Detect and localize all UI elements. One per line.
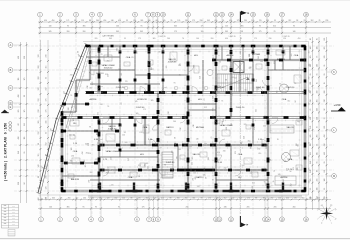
svg-text:175: 175 <box>274 61 276 64</box>
svg-text:95: 95 <box>317 144 319 146</box>
svg-text:312: 312 <box>46 143 48 146</box>
svg-text:312: 312 <box>234 78 237 80</box>
svg-text:410: 410 <box>18 95 20 98</box>
svg-text:175: 175 <box>24 78 26 81</box>
svg-text:——: —— <box>12 218 16 220</box>
svg-text:175: 175 <box>92 82 94 85</box>
svg-text:175: 175 <box>259 31 262 33</box>
svg-text:95: 95 <box>317 82 319 84</box>
svg-text:140: 140 <box>243 136 245 139</box>
outer wall: bottom facade <box>61 190 306 193</box>
svg-text:312: 312 <box>287 100 290 102</box>
svg-text:345: 345 <box>231 77 234 79</box>
svg-text:98: 98 <box>220 86 222 88</box>
svg-text:76: 76 <box>107 106 109 108</box>
svg-text:260: 260 <box>204 143 207 145</box>
svg-text:140: 140 <box>116 26 119 28</box>
interior window dim ticks <box>64 48 303 188</box>
svg-text:95: 95 <box>179 63 181 65</box>
svg-text:175: 175 <box>208 198 211 200</box>
svg-text:98: 98 <box>60 198 62 200</box>
svg-text:345: 345 <box>49 31 52 33</box>
svg-text:140: 140 <box>18 151 20 154</box>
svg-text:95: 95 <box>126 20 128 22</box>
svg-text:450: 450 <box>324 152 326 155</box>
svg-text:3.65/4.20: 3.65/4.20 <box>104 68 113 70</box>
svg-text:205: 205 <box>263 126 266 128</box>
svg-text:BALKON: BALKON <box>277 58 286 61</box>
svg-text:410: 410 <box>286 198 289 200</box>
svg-text:450: 450 <box>111 157 113 160</box>
svg-text:76: 76 <box>74 134 76 136</box>
svg-text:230: 230 <box>287 168 289 171</box>
svg-text:76: 76 <box>121 103 123 105</box>
svg-text:115: 115 <box>231 123 233 126</box>
svg-text:205: 205 <box>85 164 87 167</box>
svg-text:95: 95 <box>118 207 120 209</box>
svg-text:205: 205 <box>73 118 75 121</box>
svg-text:95: 95 <box>170 20 172 22</box>
svg-text:260: 260 <box>91 198 94 200</box>
svg-text:175: 175 <box>204 168 206 171</box>
svg-text:140: 140 <box>293 31 296 33</box>
svg-text:95: 95 <box>141 26 143 28</box>
svg-text:365: 365 <box>145 163 148 165</box>
svg-text:1.80/1.35: 1.80/1.35 <box>228 36 235 38</box>
svg-text:450: 450 <box>281 20 284 22</box>
svg-text:450: 450 <box>146 198 149 200</box>
svg-text:——: —— <box>12 206 16 208</box>
outer wall: right facade <box>304 46 307 192</box>
svg-text:230: 230 <box>309 129 311 132</box>
svg-text:365: 365 <box>192 157 194 160</box>
svg-text:88: 88 <box>156 20 158 22</box>
svg-text:175: 175 <box>153 198 156 200</box>
svg-text:120: 120 <box>122 135 125 137</box>
svg-text:345: 345 <box>310 135 312 138</box>
svg-text:345: 345 <box>324 170 326 173</box>
svg-text:120: 120 <box>310 170 312 173</box>
svg-text:230: 230 <box>38 110 40 113</box>
svg-text:205: 205 <box>247 207 250 209</box>
svg-text:410: 410 <box>317 64 319 67</box>
svg-text:120: 120 <box>208 157 210 160</box>
svg-text:——: —— <box>12 221 16 223</box>
svg-text:2.10/1.35: 2.10/1.35 <box>282 36 289 38</box>
left dimension chains <box>14 40 49 203</box>
svg-text:88: 88 <box>251 147 253 149</box>
svg-text:115: 115 <box>310 196 312 199</box>
svg-text:410: 410 <box>75 198 78 200</box>
svg-text:98: 98 <box>317 170 319 172</box>
svg-text:115: 115 <box>46 66 48 69</box>
svg-text:345: 345 <box>266 20 269 22</box>
svg-text:▪▪▪▪: ▪▪▪▪ <box>4 212 7 214</box>
svg-text:260: 260 <box>249 54 251 57</box>
svg-text:260: 260 <box>173 121 176 123</box>
svg-text:120: 120 <box>38 88 40 91</box>
svg-text:175: 175 <box>237 20 240 22</box>
svg-text:115: 115 <box>81 20 84 22</box>
svg-text:345: 345 <box>140 31 143 33</box>
svg-text:88: 88 <box>89 20 91 22</box>
svg-text:120: 120 <box>139 132 142 134</box>
svg-text:450: 450 <box>310 99 312 102</box>
svg-text:365: 365 <box>70 160 73 162</box>
svg-text:410: 410 <box>258 153 261 155</box>
svg-text:120: 120 <box>197 186 200 188</box>
svg-text:115: 115 <box>38 154 40 157</box>
svg-text:345: 345 <box>256 79 258 82</box>
svg-text:140: 140 <box>49 207 52 209</box>
svg-text:140: 140 <box>196 38 199 40</box>
svg-text:98: 98 <box>201 198 203 200</box>
svg-text:260: 260 <box>185 198 188 200</box>
svg-text:98: 98 <box>169 198 171 200</box>
svg-text:115: 115 <box>310 143 312 146</box>
svg-text:260: 260 <box>324 91 326 94</box>
svg-text:312: 312 <box>38 99 40 102</box>
svg-text:115: 115 <box>324 196 326 199</box>
svg-text:410: 410 <box>310 64 312 67</box>
svg-text:88: 88 <box>255 198 257 200</box>
svg-text:365: 365 <box>324 47 326 50</box>
svg-text:410: 410 <box>18 56 20 59</box>
svg-text:▪▪▪▪: ▪▪▪▪ <box>4 209 7 211</box>
svg-text:115: 115 <box>111 184 114 186</box>
svg-text:——: —— <box>12 209 16 211</box>
door swing arcs <box>89 66 278 176</box>
svg-text:365: 365 <box>136 113 139 115</box>
balcony divider piers <box>92 183 292 193</box>
wall poche segments <box>61 47 305 189</box>
svg-text:120: 120 <box>177 156 179 159</box>
svg-text:140: 140 <box>251 20 254 22</box>
svg-text:95: 95 <box>274 20 276 22</box>
svg-text:345: 345 <box>99 198 102 200</box>
svg-text:205: 205 <box>274 207 277 209</box>
svg-text:312: 312 <box>311 20 314 22</box>
svg-text:88: 88 <box>130 198 132 200</box>
svg-text:98: 98 <box>296 20 298 22</box>
svg-text:95: 95 <box>273 180 275 182</box>
svg-text:88: 88 <box>96 133 98 135</box>
svg-text:312: 312 <box>252 183 255 185</box>
svg-text:450: 450 <box>148 20 151 22</box>
svg-text:MUTFAK: MUTFAK <box>196 126 205 129</box>
svg-text:260: 260 <box>223 151 226 153</box>
svg-text:175: 175 <box>46 99 48 102</box>
roof overhang outline <box>39 42 309 196</box>
svg-text:365: 365 <box>18 110 20 113</box>
svg-text:312: 312 <box>244 89 247 91</box>
svg-text:140: 140 <box>310 47 312 50</box>
svg-text:365: 365 <box>166 65 168 68</box>
svg-text:260: 260 <box>211 38 214 40</box>
svg-text:115: 115 <box>298 144 300 147</box>
svg-text:95: 95 <box>124 38 126 40</box>
svg-text:175: 175 <box>235 151 237 154</box>
elevator shaft <box>233 62 244 73</box>
svg-text:120: 120 <box>283 38 286 40</box>
svg-text:95: 95 <box>324 65 326 67</box>
svg-text:115: 115 <box>139 175 141 178</box>
svg-text:345: 345 <box>239 198 242 200</box>
svg-text:120: 120 <box>177 20 180 22</box>
svg-text:260: 260 <box>96 20 99 22</box>
outer wall: left stepped edge <box>62 46 92 113</box>
svg-text:410: 410 <box>310 117 312 120</box>
svg-text:345: 345 <box>68 130 71 132</box>
svg-text:95: 95 <box>324 73 326 75</box>
svg-text:115: 115 <box>213 108 215 111</box>
svg-text:2.20/1.10: 2.20/1.10 <box>116 87 125 89</box>
svg-text:88: 88 <box>101 104 103 106</box>
svg-text:98: 98 <box>309 142 311 144</box>
svg-text:140: 140 <box>124 142 127 144</box>
svg-text:120: 120 <box>278 198 281 200</box>
svg-text:450: 450 <box>52 20 55 22</box>
svg-text:345: 345 <box>135 101 138 103</box>
svg-text:312: 312 <box>168 111 170 114</box>
svg-text:312: 312 <box>288 20 291 22</box>
svg-text:450: 450 <box>293 207 296 209</box>
svg-text:76: 76 <box>324 117 326 119</box>
svg-text:175: 175 <box>142 207 145 209</box>
svg-text:365: 365 <box>277 91 279 94</box>
stairwell with treads <box>217 74 253 92</box>
bottom balconies with parapet <box>88 196 302 197</box>
svg-text:410: 410 <box>309 51 311 54</box>
svg-text:175: 175 <box>143 109 146 111</box>
svg-text:98: 98 <box>175 137 177 139</box>
svg-text:120: 120 <box>317 108 319 111</box>
svg-text:205: 205 <box>317 99 319 102</box>
svg-text:115: 115 <box>317 187 319 190</box>
svg-text:230: 230 <box>244 20 247 22</box>
svg-text:365: 365 <box>118 69 121 71</box>
svg-text:140: 140 <box>324 179 326 182</box>
svg-text:95: 95 <box>46 77 48 79</box>
wardrobe/stair rungs center-bottom <box>162 152 173 178</box>
svg-text:76: 76 <box>294 83 296 85</box>
svg-text:345: 345 <box>284 161 287 163</box>
svg-text:312: 312 <box>291 184 293 187</box>
svg-text:345: 345 <box>52 198 55 200</box>
svg-text:140: 140 <box>199 76 201 79</box>
svg-text:260: 260 <box>90 172 93 174</box>
svg-text:365: 365 <box>38 121 40 124</box>
svg-text:120: 120 <box>46 198 48 201</box>
svg-text:450: 450 <box>103 20 106 22</box>
window sill inner lines <box>64 49 303 189</box>
svg-text:95: 95 <box>24 152 26 154</box>
level marker +4.50 right side <box>331 103 346 111</box>
svg-text:312: 312 <box>46 88 48 91</box>
svg-text:120: 120 <box>201 31 204 33</box>
svg-text:365: 365 <box>107 74 109 77</box>
svg-text:345: 345 <box>172 150 174 153</box>
svg-text:312: 312 <box>180 127 182 130</box>
svg-text:76: 76 <box>317 56 319 58</box>
svg-text:95: 95 <box>317 73 319 75</box>
svg-text:230: 230 <box>325 20 328 22</box>
svg-text:260: 260 <box>89 180 91 183</box>
right dimension chains <box>310 37 331 210</box>
svg-text:450: 450 <box>309 181 311 184</box>
svg-text:345: 345 <box>309 64 311 67</box>
svg-text:120: 120 <box>107 198 110 200</box>
svg-text:BANYO: BANYO <box>96 72 104 75</box>
svg-text:365: 365 <box>324 38 326 41</box>
svg-text:+4.50: +4.50 <box>334 103 341 107</box>
svg-text:205: 205 <box>192 178 194 181</box>
svg-text:76: 76 <box>222 20 224 22</box>
svg-text:YATAK ODASI: YATAK ODASI <box>101 64 115 67</box>
svg-text:410: 410 <box>317 117 319 120</box>
svg-text:95: 95 <box>324 161 326 163</box>
svg-text:115: 115 <box>111 127 113 130</box>
svg-text:120: 120 <box>185 20 188 22</box>
svg-text:140: 140 <box>49 26 52 28</box>
benchmark mark <box>1 110 9 113</box>
svg-text:2.90/3.10: 2.90/3.10 <box>286 87 295 89</box>
svg-text:365: 365 <box>324 126 326 129</box>
svg-text:230: 230 <box>200 20 203 22</box>
svg-text:98: 98 <box>124 132 126 134</box>
svg-text:98: 98 <box>24 183 26 185</box>
svg-text:88: 88 <box>310 38 312 40</box>
svg-text:140: 140 <box>241 165 244 167</box>
top grid axis bubbles <box>38 12 309 17</box>
svg-text:230: 230 <box>186 207 189 209</box>
svg-text:230: 230 <box>18 182 20 185</box>
svg-text:205: 205 <box>95 38 98 40</box>
svg-text:120: 120 <box>88 143 90 146</box>
svg-text:450: 450 <box>302 198 305 200</box>
section flag bottom <box>240 216 248 227</box>
svg-text:115: 115 <box>120 124 122 127</box>
svg-text:230: 230 <box>83 198 86 200</box>
svg-text:410: 410 <box>298 38 301 40</box>
svg-text:140: 140 <box>98 120 101 122</box>
svg-text:230: 230 <box>195 177 197 180</box>
svg-text:450: 450 <box>86 153 89 155</box>
svg-text:95: 95 <box>324 82 326 84</box>
svg-text:365: 365 <box>139 92 141 95</box>
svg-text:260: 260 <box>167 38 170 40</box>
svg-text:345: 345 <box>224 207 227 209</box>
svg-text:▪▪▪▪: ▪▪▪▪ <box>4 206 7 208</box>
svg-text:120: 120 <box>71 148 73 151</box>
svg-text:98: 98 <box>89 126 91 128</box>
section line A-A <box>239 23 241 214</box>
svg-text:140: 140 <box>310 161 312 164</box>
svg-text:410: 410 <box>310 91 312 94</box>
svg-text:175: 175 <box>138 198 141 200</box>
svg-text:365: 365 <box>225 31 228 33</box>
svg-text:175: 175 <box>247 198 250 200</box>
svg-text:365: 365 <box>116 31 119 33</box>
svg-text:365: 365 <box>121 73 123 76</box>
north compass rose <box>316 203 338 225</box>
svg-text:175: 175 <box>174 31 177 33</box>
svg-text:450: 450 <box>214 20 217 22</box>
svg-text:115: 115 <box>135 52 138 54</box>
svg-text:115: 115 <box>297 167 299 170</box>
svg-text:88: 88 <box>225 79 227 81</box>
svg-text:ODA: ODA <box>128 176 133 179</box>
svg-text:115: 115 <box>317 152 319 155</box>
svg-text:260: 260 <box>67 31 70 33</box>
interior walls (double line) <box>62 46 305 191</box>
svg-text:76: 76 <box>219 62 221 64</box>
svg-text:▪▪▪▪: ▪▪▪▪ <box>4 218 7 220</box>
svg-text:345: 345 <box>317 196 319 199</box>
svg-text:365: 365 <box>178 149 181 151</box>
svg-text:260: 260 <box>107 61 110 63</box>
svg-text:410: 410 <box>84 160 86 163</box>
svg-text:410: 410 <box>161 198 164 200</box>
svg-text:95: 95 <box>174 82 176 84</box>
svg-text:ODA: ODA <box>288 158 293 161</box>
bottom dimension chains <box>38 197 331 217</box>
svg-text:260: 260 <box>83 31 86 33</box>
svg-text:95: 95 <box>293 26 295 28</box>
svg-text:76: 76 <box>211 137 213 139</box>
svg-text:115: 115 <box>266 183 268 186</box>
svg-text:365: 365 <box>151 100 154 102</box>
svg-text:ODA: ODA <box>294 54 299 57</box>
furniture and fixtures <box>68 50 302 185</box>
svg-text:345: 345 <box>109 38 112 40</box>
svg-text:115: 115 <box>72 106 74 109</box>
svg-text:175: 175 <box>293 167 295 170</box>
top dimension chains <box>38 18 331 35</box>
svg-text:230: 230 <box>269 38 272 40</box>
svg-text:95: 95 <box>324 188 326 190</box>
svg-text:95: 95 <box>310 188 312 190</box>
svg-text:140: 140 <box>231 198 234 200</box>
svg-text:115: 115 <box>259 20 262 22</box>
svg-text:——: —— <box>12 224 16 226</box>
svg-text:115: 115 <box>18 78 20 81</box>
svg-text:345: 345 <box>203 175 206 177</box>
svg-text:115: 115 <box>225 26 228 28</box>
svg-text:95: 95 <box>46 132 48 134</box>
svg-text:98: 98 <box>206 177 208 179</box>
svg-text:ODA: ODA <box>73 150 78 153</box>
svg-text:95: 95 <box>277 139 279 141</box>
svg-text:95: 95 <box>317 38 319 40</box>
svg-text:450: 450 <box>59 20 62 22</box>
property boundary line (double, slanted, slight bend) <box>36 44 88 194</box>
svg-text:120: 120 <box>229 67 232 69</box>
svg-text:450: 450 <box>229 20 232 22</box>
svg-text:410: 410 <box>118 20 121 22</box>
svg-text:140: 140 <box>111 20 114 22</box>
svg-text:——: —— <box>12 215 16 217</box>
legend table bottom-left <box>2 205 19 237</box>
bottom grid axis bubbles <box>39 217 309 222</box>
svg-text:120: 120 <box>46 187 48 190</box>
svg-text:345: 345 <box>46 121 48 124</box>
svg-text:76: 76 <box>310 109 312 111</box>
svg-text:76: 76 <box>274 170 276 172</box>
room name labels <box>71 53 299 181</box>
svg-text:205: 205 <box>189 146 192 148</box>
svg-text:175: 175 <box>309 116 311 119</box>
